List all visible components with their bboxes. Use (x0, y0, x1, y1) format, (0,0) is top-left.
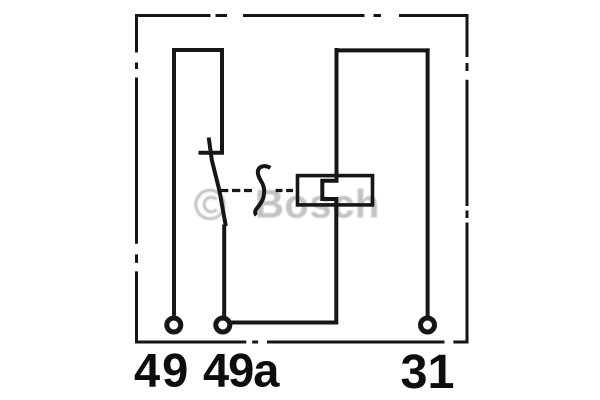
heater box (298, 176, 373, 205)
dashed mechanical link (220, 189, 297, 192)
relay enclosure (dash-dot case outline) (135, 14, 469, 344)
wire: fixed contact drop (right leg of 49 loop) (220, 48, 224, 153)
wire: blade to terminal 49a (222, 225, 226, 317)
terminal 31 (421, 318, 435, 332)
fixed contact tick (199, 151, 225, 155)
terminal 49a (216, 318, 230, 332)
wire: top bar of 31 loop (335, 48, 430, 52)
wire: terminal 31 up-leg (426, 48, 430, 316)
terminal 49 (167, 318, 181, 332)
svg-text:31: 31 (401, 345, 455, 399)
wire: top bar of 49 loop (172, 48, 224, 52)
bimetal strip (S-curve) (255, 166, 270, 215)
svg-text:49a: 49a (203, 344, 280, 397)
switch blade (movable contact) (209, 138, 226, 227)
wire: terminal 49 up-leg (172, 48, 176, 316)
wire: 31 loop left leg + heater crank + run to 49a (231, 48, 337, 323)
svg-text:49: 49 (134, 344, 190, 397)
